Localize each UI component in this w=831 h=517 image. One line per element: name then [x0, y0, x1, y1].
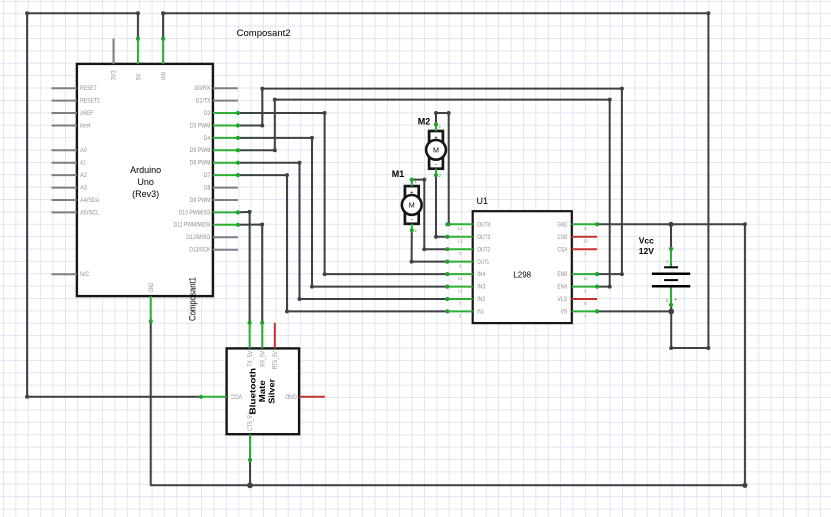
svg-text:M: M [433, 146, 439, 155]
svg-text:D0/RX: D0/RX [195, 85, 211, 92]
svg-text:M2: M2 [418, 117, 431, 127]
svg-text:D11 PWM/MOSI: D11 PWM/MOSI [174, 222, 211, 229]
svg-text:IN3: IN3 [477, 284, 485, 291]
svg-text:2: 2 [666, 298, 669, 304]
svg-text:RESET2: RESET2 [80, 98, 100, 105]
svg-text:TX_5V: TX_5V [247, 350, 254, 367]
svg-text:13: 13 [458, 239, 463, 244]
svg-text:D2: D2 [204, 110, 211, 117]
svg-text:D10 PWM/SS: D10 PWM/SS [179, 209, 211, 216]
svg-text:RESET: RESET [80, 85, 97, 92]
svg-text:IN2: IN2 [477, 296, 485, 303]
svg-text:IN4: IN4 [477, 271, 485, 278]
svg-text:ENB: ENB [557, 271, 567, 278]
svg-text:N/C: N/C [80, 271, 89, 278]
svg-text:RTS_5V: RTS_5V [272, 351, 279, 370]
svg-text:Composant2: Composant2 [237, 28, 291, 39]
svg-text:1: 1 [666, 259, 669, 265]
svg-text:VLS: VLS [557, 296, 567, 303]
svg-text:11: 11 [583, 276, 588, 281]
svg-text:D4: D4 [204, 135, 211, 142]
svg-text:GND: GND [148, 283, 155, 293]
svg-text:AREF: AREF [80, 110, 93, 117]
svg-text:OUT4: OUT4 [477, 221, 490, 228]
svg-text:D7: D7 [204, 172, 211, 179]
svg-text:D9 PWM: D9 PWM [190, 197, 211, 204]
svg-text:VCC: VCC [230, 392, 242, 399]
svg-text:OUT1: OUT1 [477, 259, 489, 266]
svg-text:VIN: VIN [161, 72, 168, 80]
svg-text:CSA: CSA [557, 246, 567, 253]
svg-text:+: + [674, 297, 677, 303]
svg-text:IN1: IN1 [477, 309, 484, 316]
svg-text:ioref: ioref [80, 122, 90, 129]
svg-text:GND: GND [557, 221, 567, 228]
svg-text:Silver: Silver [267, 378, 277, 404]
svg-text:A1: A1 [80, 160, 85, 167]
svg-text:OUT3: OUT3 [477, 234, 490, 241]
svg-text:CSB: CSB [557, 234, 567, 241]
svg-text:-: - [674, 259, 676, 265]
svg-text:A0: A0 [80, 147, 87, 154]
svg-text:3V3: 3V3 [111, 70, 118, 80]
svg-text:A3: A3 [80, 185, 87, 192]
svg-text:10: 10 [458, 288, 463, 293]
svg-text:D3 PWM: D3 PWM [190, 122, 211, 129]
svg-text:15: 15 [583, 239, 588, 244]
svg-text:D1/TX: D1/TX [196, 98, 211, 105]
svg-text:A5/SCL: A5/SCL [80, 209, 99, 216]
svg-text:D12/MISO: D12/MISO [186, 234, 210, 241]
svg-text:12V: 12V [639, 246, 654, 256]
svg-text:(Rev3): (Rev3) [132, 189, 159, 199]
svg-text:GND: GND [285, 392, 297, 399]
svg-text:Composant1: Composant1 [188, 277, 198, 321]
svg-text:Mate: Mate [257, 380, 267, 402]
svg-text:L298: L298 [513, 270, 531, 279]
svg-text:Bluetooth: Bluetooth [247, 368, 257, 415]
svg-text:RX_5V: RX_5V [260, 350, 267, 367]
svg-text:M1: M1 [392, 169, 405, 179]
svg-text:5V: 5V [135, 73, 142, 80]
svg-text:OUT2: OUT2 [477, 246, 490, 253]
svg-text:D8: D8 [204, 185, 211, 192]
svg-text:M: M [409, 201, 415, 210]
svg-text:U1: U1 [477, 196, 489, 206]
svg-text:Arduino: Arduino [130, 165, 161, 175]
svg-text:VS: VS [561, 309, 568, 316]
svg-text:-: - [411, 217, 413, 223]
svg-text:D6 PWM: D6 PWM [190, 160, 211, 167]
svg-text:A4/SDA: A4/SDA [80, 197, 100, 204]
svg-text:A2: A2 [80, 172, 87, 179]
svg-text:Vcc: Vcc [639, 236, 654, 246]
svg-text:ENA: ENA [557, 284, 567, 291]
svg-text:14: 14 [458, 226, 463, 231]
svg-text:12: 12 [458, 276, 463, 281]
svg-text:D5 PWM: D5 PWM [190, 147, 211, 154]
svg-text:Uno: Uno [137, 177, 154, 187]
svg-text:-: - [435, 162, 437, 168]
svg-text:D13/SCK: D13/SCK [189, 247, 211, 254]
